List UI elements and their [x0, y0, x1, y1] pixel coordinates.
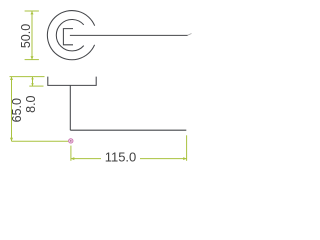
dimension 8.0 line: [32, 77, 34, 87]
grip-bottom point marker: [69, 139, 73, 143]
lever grip line (front view): [70, 34, 188, 36]
dimension 115.0 left extension line: [70, 146, 72, 161]
dimension 65.0 line: [11, 77, 13, 142]
dimension 115.0 right extension line: [186, 135, 188, 161]
dimension 65.0 leader to grip bottom point: [12, 140, 69, 142]
lever tip fade (front view): [188, 34, 192, 36]
dimension 50.0 extension tick top: [25, 10, 39, 12]
svg-text:65.0: 65.0: [10, 98, 24, 122]
outer circle (rose front view): [47, 11, 94, 60]
grip (side view): [70, 129, 186, 131]
dimension 50.0 arrow bottom: [31, 56, 34, 59]
dimension 65.0/8.0 top extension line (door face): [10, 76, 45, 78]
dimension 50.0 arrow top: [31, 11, 34, 14]
neck (side view): [69, 85, 71, 130]
dimension 65.0 arrow top: [10, 77, 13, 80]
dimension 8.0 bottom extension tick: [29, 85, 43, 87]
dimension 115.0 arrow left: [71, 157, 74, 160]
dimension 50.0 line: [31, 11, 33, 60]
dimension 115.0 line right segment: [140, 158, 187, 160]
dimension 115.0 arrow right: [183, 157, 186, 160]
dimension 65.0 arrow bottom: [10, 138, 13, 141]
svg-text:50.0: 50.0: [19, 24, 33, 48]
rose side view (U shape): [48, 77, 96, 86]
neck square (front view, open right): [63, 29, 73, 45]
dimension 8.0 arrow top: [31, 77, 34, 80]
svg-text:115.0: 115.0: [105, 150, 137, 165]
svg-text:8.0: 8.0: [24, 95, 38, 112]
inner arc (rose inner edge): [56, 19, 83, 50]
dimension 115.0 line left segment: [71, 158, 101, 160]
dimension 50.0 extension tick bottom: [25, 59, 39, 61]
dimension 8.0 arrow bottom: [31, 83, 34, 86]
